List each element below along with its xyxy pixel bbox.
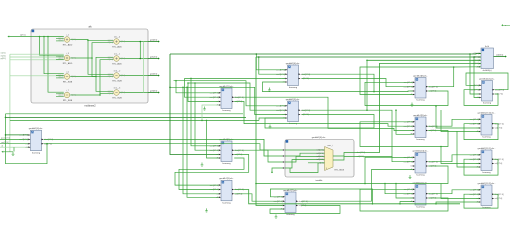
wire B out1 to mux p2 (44, 139, 283, 156)
operator re1__1 (RTL_ADD) (108, 54, 126, 66)
wire E2 out1 to G3 pin2 (302, 110, 413, 162)
module aik output pin gd2[3:0] (148, 75, 158, 77)
operator i_3 (RTL_ADD) (58, 53, 76, 65)
wire B input 4 light (0, 146, 28, 148)
wire vertical x176 to C1 pin1 (176, 81, 219, 93)
mux input wire in0[17:0] (308, 149, 325, 151)
wire D1 out1 to mux p3 (234, 150, 283, 162)
wire left light vertical (9, 54, 11, 152)
mux module input pin 4 (283, 167, 285, 169)
wire y87.3 to E2 pin3 (170, 87, 285, 114)
svg-text:RTL_ADD: RTL_ADD (63, 62, 73, 65)
svg-text:harmreg: harmreg (483, 102, 492, 105)
wire H4 pin4 feed (436, 202, 479, 204)
block H0 input pin u1[3:0] (479, 56, 481, 58)
svg-text:O[3:0]: O[3:0] (120, 41, 125, 43)
block H2 (harmreg) (470, 112, 504, 138)
module aik output pin gd3[3:0] (148, 92, 158, 94)
svg-text:genblk1[9].xls..: genblk1[9].xls.. (413, 115, 428, 117)
operator im1__3 (RTL_SUB) (108, 88, 126, 100)
wire aik crisscross 1 (70, 39, 113, 42)
operator i_5 (RTL_SUB) (58, 72, 76, 84)
block H4 (harmreg) (470, 183, 504, 209)
wire aik crisscross 2 (70, 43, 113, 58)
svg-text:RTL_SUB: RTL_SUB (63, 100, 73, 102)
mux output wires to module edge (333, 153, 354, 157)
wire y78.4 to E1 pin3 (185, 77, 286, 79)
wire aik input w[7:0] (9, 36, 64, 38)
wire H3 pin3 feed (441, 147, 479, 164)
wire bus y57 from x256 to H0 pin2 (256, 56, 481, 58)
svg-text:srec_i: srec_i (327, 145, 333, 147)
wire vertical x183 to D2 pin3 (183, 87, 219, 194)
wire aik re input light green (10, 53, 64, 55)
wire F out2 self loop (270, 206, 340, 214)
wire C1 out2 to G2 pin2 (234, 102, 413, 127)
wire H4 pin3 feed (441, 184, 479, 199)
svg-text:genblk1[0].xls..: genblk1[0].xls.. (29, 128, 44, 130)
wire H2 self loop (464, 124, 498, 140)
wire D1 loop1 to D2 pin1 (175, 155, 249, 186)
wire aik vertical feed 2 (43, 36, 45, 38)
block H0 input pin u0[3:0] (479, 53, 481, 55)
svg-text:harmreg: harmreg (416, 206, 425, 209)
wire aik output 3 to border (120, 75, 148, 77)
svg-text:harmreg: harmreg (222, 109, 231, 112)
wire aik output 4 to border (120, 92, 148, 94)
wire aik out join light (143, 42, 145, 93)
svg-text:harmreg: harmreg (416, 138, 425, 141)
svg-text:in0[17:0]: in0[17:0] (317, 150, 324, 152)
wire D2 out2 to F pin2 (234, 194, 283, 201)
block G2 (harmreg) (404, 115, 438, 141)
block D1 (harmreg) (210, 139, 244, 165)
svg-text:genblk1[5].xls..: genblk1[5].xls.. (286, 99, 301, 101)
svg-text:genblk1[13.1].xls..: genblk1[13.1].xls.. (478, 148, 496, 150)
wire H1 upper loop (466, 73, 508, 90)
wire vertical x187 to D2 pin4 (187, 87, 219, 197)
svg-text:val[17:0]: val[17:0] (495, 198, 503, 200)
svg-text:genblk1[13.0].xls..: genblk1[13.0].xls.. (478, 112, 496, 114)
block G4 (harmreg) (404, 182, 438, 208)
svg-text:harmreg: harmreg (222, 201, 231, 204)
svg-text:harmreg: harmreg (482, 171, 491, 174)
mux input wire sel[1:0] (308, 162, 325, 164)
wire aik input 3 light green (10, 59, 64, 61)
svg-text:I1[3:0]: I1[3:0] (58, 77, 63, 79)
wire aik adder 4 input jog pair (56, 93, 64, 95)
wire long bus y117.4 (6, 116, 247, 118)
termination marker G1 (411, 103, 414, 107)
ground marker below C1 (203, 107, 206, 111)
svg-text:od[63:0]: od[63:0] (496, 55, 504, 57)
wire H0 pin4 feed from mux out1 (354, 63, 481, 152)
svg-text:gd1[3:0]: gd1[3:0] (150, 57, 158, 59)
wire H4 self loop (464, 194, 498, 208)
wire aik adder 1 input jog pair (56, 37, 64, 39)
wire aik cross down 4 (100, 94, 113, 95)
svg-text:RTL_SUB: RTL_SUB (112, 97, 122, 99)
wire E1 loop bottom extension to G1 pin3 (374, 90, 413, 93)
wire vertical x170 to D1 pin3 (170, 54, 219, 155)
operator i_7 (RTL_SUB) (58, 90, 76, 102)
ground marker below D1 (201, 163, 204, 167)
svg-text:O[3:0]: O[3:0] (71, 39, 76, 41)
wire B out2 to mux p1 (44, 144, 283, 150)
mux module input pin 3 (283, 161, 285, 163)
svg-text:val[17:0]: val[17:0] (495, 163, 503, 165)
block C1 (harmreg) (210, 86, 244, 112)
wire B input 2 (0, 138, 28, 140)
svg-text:RTL_ADD: RTL_ADD (112, 45, 122, 48)
svg-text:I1[3:0]: I1[3:0] (108, 59, 113, 61)
wire H1 lower loop (464, 90, 498, 106)
svg-text:O[3:0]: O[3:0] (71, 95, 76, 97)
wire E1 out2 to G1 pin2 (302, 79, 413, 87)
wire aik adder 3 input jog pair (56, 74, 64, 76)
svg-text:genblk1[7].xls..: genblk1[7].xls.. (283, 190, 298, 192)
svg-text:I1[3:0]: I1[3:0] (108, 76, 113, 78)
block F (harmreg) (274, 190, 308, 216)
wire y183.5 extension left (256, 183, 365, 185)
wire vertical x191 to D1 pin1 (191, 78, 219, 145)
operator i_1 (RTL_ADD) (58, 35, 76, 47)
module twiddle (RTL_MUX) container (285, 137, 354, 182)
wire vertical x184.5 to C1 pin2 (185, 78, 219, 97)
wire y83 to E2 pin2 (188, 83, 285, 110)
wire G2 self loop (360, 122, 448, 147)
svg-text:re[3:0]: re[3:0] (1, 52, 6, 55)
ground marker below D2 (205, 208, 208, 212)
wire B pin1 feed (6, 134, 29, 136)
svg-text:I1[3:0]: I1[3:0] (108, 93, 113, 95)
svg-text:gd0[3:0]: gd0[3:0] (150, 40, 158, 42)
svg-text:re0__0: re0__0 (114, 37, 121, 39)
svg-text:O[3:0]: O[3:0] (120, 58, 125, 60)
module aik output pin gd1[3:0] (148, 58, 158, 60)
svg-text:genblk1[4].xls..: genblk1[4].xls.. (286, 63, 301, 65)
wire aik vertical feed 3 (48, 37, 64, 93)
wire H1 pin4 feed (474, 57, 479, 98)
wire F out1 to G3 pin4 (301, 170, 413, 202)
svg-text:RTL_ADD: RTL_ADD (63, 43, 73, 46)
svg-text:RTL_SUB: RTL_SUB (63, 81, 73, 83)
svg-text:genblk1[13.2].xls..: genblk1[13.2].xls.. (478, 183, 496, 185)
wire B loop top y113.8 (6, 113, 244, 115)
wire E1 pin1 feed from y54 (256, 54, 285, 70)
wire C1 pin4 light feed (202, 105, 219, 120)
block H0 input pin clk (479, 66, 481, 68)
wire main bus y54 to H0 pin1 (170, 52, 481, 55)
wire G4 out1 to H4 pin1 (428, 190, 479, 194)
module aik output pin gd0[3:0] (148, 41, 158, 43)
wire aik input 4 light green (10, 75, 64, 77)
wire D1 loop2 to D2 pin2 (179, 158, 244, 190)
mux input wire in1[17:0] (308, 152, 325, 154)
svg-text:gauss[17:0]: gauss[17:0] (1, 138, 10, 140)
block E1 (harmreg) (276, 63, 310, 89)
svg-text:multtrans2: multtrans2 (84, 105, 96, 108)
svg-text:harmreg: harmreg (222, 162, 231, 165)
operator im0__2 (RTL_SUB) (108, 71, 126, 83)
block H0 input pin u3[3:0] (479, 63, 481, 65)
mux input wire in2[17:0] (308, 155, 325, 157)
svg-text:im0__2: im0__2 (114, 71, 121, 73)
svg-text:I1[3:0]: I1[3:0] (108, 42, 113, 44)
svg-text:val[17:0]: val[17:0] (495, 128, 503, 130)
svg-text:im[3:0]: im[3:0] (1, 55, 7, 57)
termination marker E1 (268, 88, 271, 92)
svg-text:w[7:0]: w[7:0] (20, 35, 26, 37)
svg-text:re1__1: re1__1 (114, 54, 121, 56)
svg-text:genblk1[6].xls..: genblk1[6].xls.. (312, 137, 327, 139)
svg-text:harmreg: harmreg (482, 206, 491, 209)
wire H1 pin3 feed (470, 54, 479, 94)
svg-text:O[3:0]: O[3:0] (120, 75, 125, 77)
block E2 (harmreg) (276, 99, 310, 125)
wire long bus y120.4 (10, 119, 259, 121)
wire G1 self loop (365, 82, 448, 105)
svg-text:O[3:0]: O[3:0] (120, 92, 125, 94)
svg-text:genblk1[12].xls..: genblk1[12].xls.. (479, 78, 495, 80)
svg-text:genblk1[8].xls..: genblk1[8].xls.. (413, 75, 428, 77)
wire aik out join (139, 42, 141, 59)
block H3 (harmreg) (470, 148, 504, 174)
svg-text:in1[17:0]: in1[17:0] (317, 153, 324, 155)
svg-text:genblk1[3].xls..: genblk1[3].xls.. (219, 178, 234, 180)
block G3 (harmreg) (404, 150, 438, 176)
operator re0__0 (RTL_ADD) (108, 37, 126, 49)
wire H0 output stub (494, 56, 506, 58)
wire G4 pin2 feed (385, 184, 413, 194)
svg-text:harmreg: harmreg (416, 174, 425, 177)
svg-text:im1__3: im1__3 (114, 88, 121, 90)
wire B pin4 ground branch (13, 147, 15, 151)
svg-text:O[3:0]: O[3:0] (71, 76, 76, 78)
block B (harmreg) (19, 128, 53, 154)
wire E1 pin2 feed from y57 (259, 57, 286, 74)
mux module input pin 2 (283, 155, 285, 157)
wire B stub below (3, 151, 13, 153)
ground marker below B (12, 152, 15, 156)
module aik (multtrans2) container (31, 26, 148, 108)
svg-text:gd3[3:0]: gd3[3:0] (150, 91, 158, 93)
svg-text:O[3:0]: O[3:0] (71, 58, 76, 60)
wire aik cross down 1 (88, 40, 113, 74)
svg-text:I1[3:0]: I1[3:0] (58, 96, 63, 98)
svg-text:genblk1[10].xls..: genblk1[10].xls.. (413, 150, 429, 152)
wire aik vertical feed 1 (39, 36, 41, 38)
wire aik output 1 to border (120, 41, 148, 43)
wire D1 pin4 feed (207, 120, 219, 158)
wire H2 pin4 feed (441, 110, 479, 132)
mux module input pin 1 (283, 149, 285, 151)
wire D2 out1 long bottom y203.8 (234, 190, 460, 204)
wire E2 pin4 feed (259, 118, 285, 120)
svg-text:harmreg: harmreg (32, 151, 41, 154)
svg-text:RTL_MUX: RTL_MUX (335, 170, 345, 172)
wire E1 loop (263, 74, 375, 91)
wire B input 3 (0, 143, 28, 145)
svg-text:harmreg: harmreg (289, 86, 298, 89)
wire G2 pin4 feed from E2 out1 (396, 110, 413, 134)
svg-text:gd2[3:0]: gd2[3:0] (150, 74, 158, 76)
svg-text:gd[3:0]: gd[3:0] (1, 58, 7, 60)
block H0 input pin u2[3:0] (479, 60, 481, 62)
wire aik cross down 3 (96, 77, 113, 92)
wire C1 out1 long right (234, 97, 413, 130)
ground marker below F (275, 215, 278, 219)
svg-text:harmreg: harmreg (416, 99, 425, 102)
svg-text:I1[3:0]: I1[3:0] (58, 59, 63, 61)
svg-text:in3[17:0]: in3[17:0] (317, 159, 324, 161)
wire aik output 2 to border (120, 58, 148, 60)
wire vertical x195 to D1 pin2 (195, 83, 219, 150)
svg-text:shift64(s): shift64(s) (483, 69, 492, 72)
mux input wire in3[17:0] (308, 159, 325, 161)
wire aik adder 2 input jog pair (56, 56, 64, 58)
mux sel loop (290, 163, 325, 173)
svg-text:in2[17:0]: in2[17:0] (317, 156, 324, 158)
wire G1 out1 wrap loop to pin4 and H0 pin5 (360, 67, 454, 95)
wire G2 out1 to H2 pin1 (428, 119, 479, 126)
wire aik cross down 2 (92, 58, 113, 77)
block H1 (harmreg) (470, 78, 504, 104)
wire H0 pin3 feed vertical x367 (367, 59, 481, 61)
svg-text:RTL_SUB: RTL_SUB (112, 80, 122, 82)
wire G4 pin3 feed (396, 184, 413, 199)
wire aik crisscross 3 (70, 57, 113, 76)
mux RTL_MUX (325, 147, 345, 172)
svg-text:RTL_ADD: RTL_ADD (112, 62, 122, 65)
wire E2 loop (265, 115, 374, 129)
wire mux out2 to G3 pin1 (354, 156, 413, 159)
termination marker G3 (409, 175, 412, 179)
wire H3 pin4 feed (457, 131, 479, 167)
wire mux p4 feed (272, 168, 283, 172)
wire vertical x188 to C1 pin3 (188, 83, 219, 102)
wire vertical x256 long (256, 57, 283, 206)
wire aik crisscross 4 (70, 60, 113, 95)
wire aik im input light green (10, 56, 64, 58)
wire G4 pin4 feed (400, 202, 413, 204)
block D2 (harmreg) (210, 178, 244, 204)
wire H2 pin3 feed (436, 106, 479, 128)
wire B loop left and bottom (6, 114, 48, 164)
block H0 (shift64) output stage (481, 46, 494, 72)
svg-text:I1[3:0]: I1[3:0] (58, 40, 63, 42)
wire G3 self loop (365, 157, 448, 183)
block G1 (harmreg) (404, 75, 438, 101)
wire H3 self loop (464, 159, 498, 175)
svg-text:twiddle: twiddle (316, 179, 324, 182)
wire F loop from bottom line (270, 189, 372, 204)
wire G4 self loop (360, 189, 448, 211)
wire y81 branch to E2 pin1 (174, 81, 286, 106)
termination marker E2 (269, 125, 272, 129)
svg-text:harmreg: harmreg (482, 136, 491, 139)
wire G3 out1 to H3 pin1 (428, 155, 479, 162)
